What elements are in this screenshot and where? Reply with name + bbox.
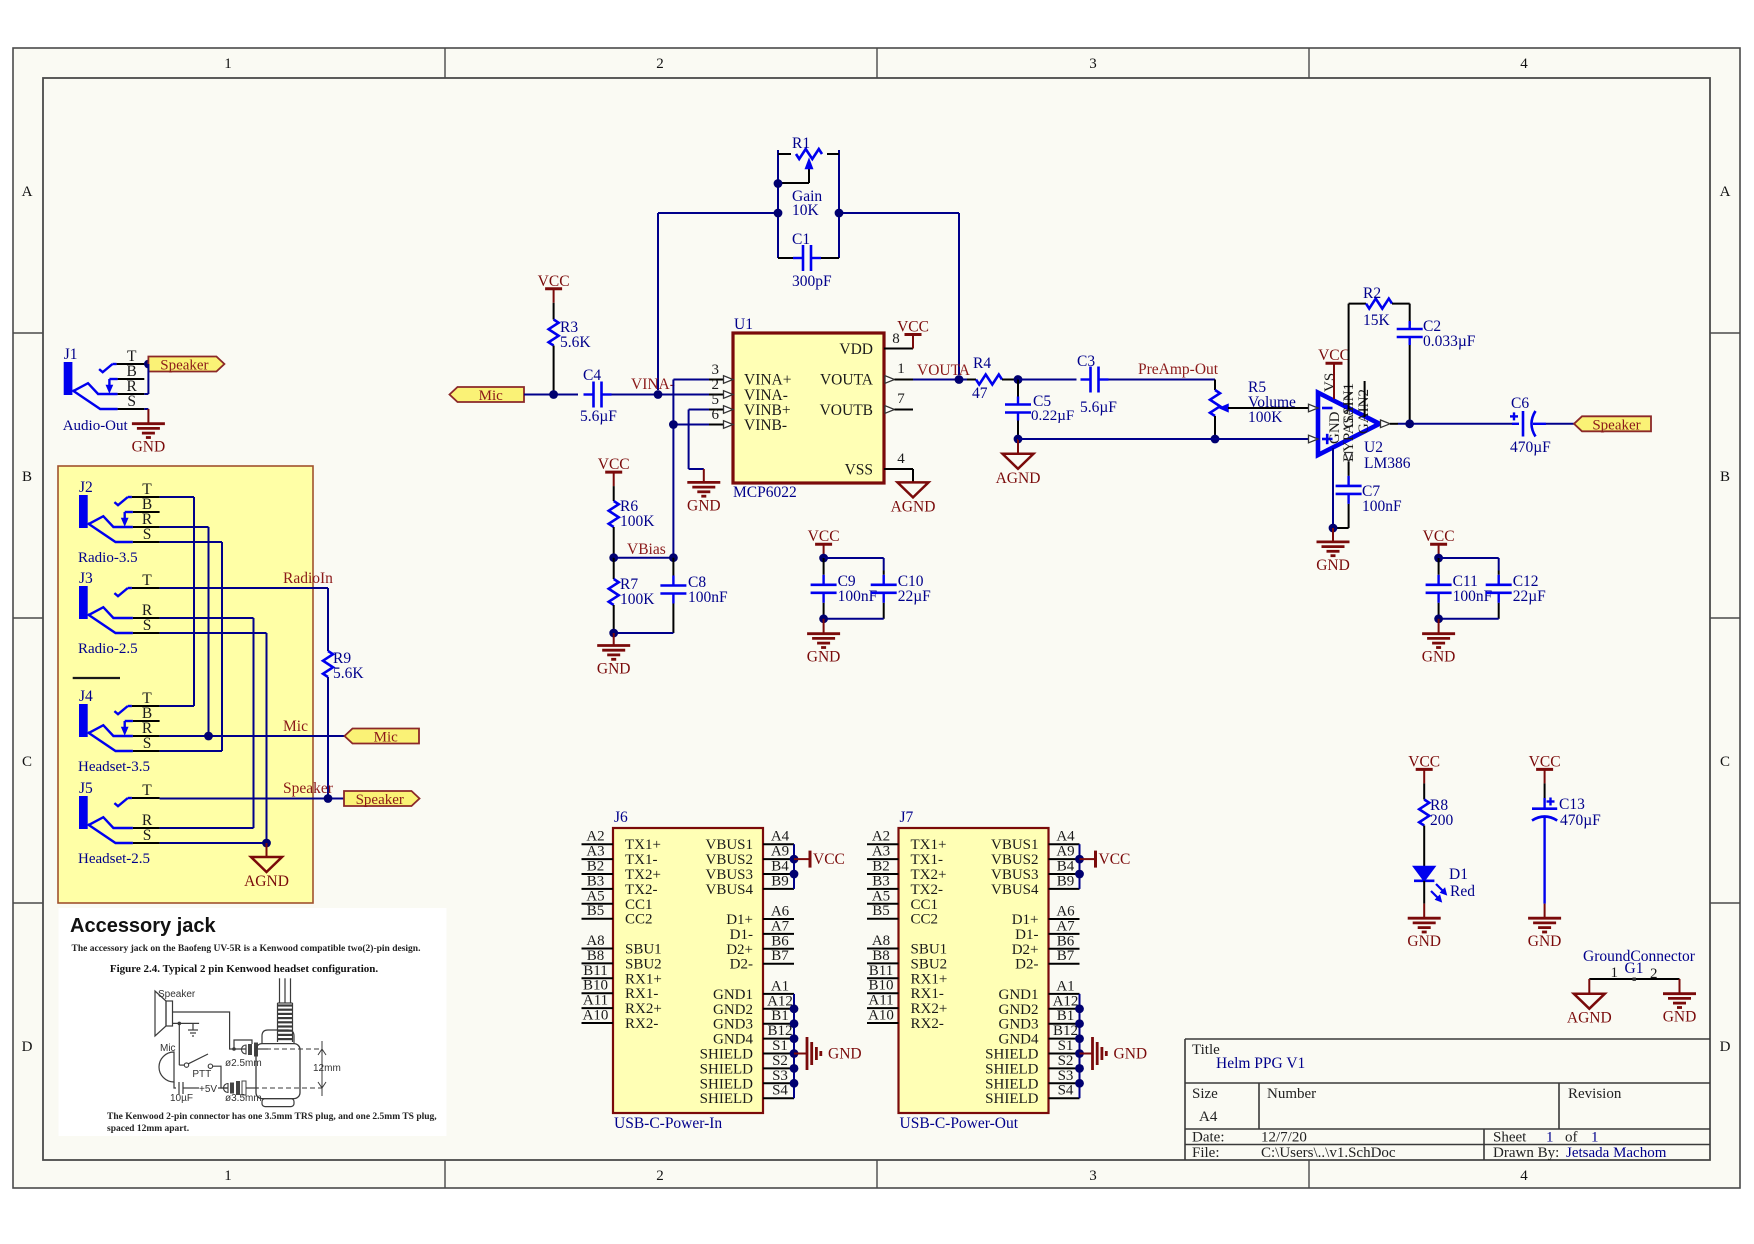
junction VCC/C11 xyxy=(1434,554,1443,563)
svg-text:GND1: GND1 xyxy=(713,987,753,1003)
svg-text:A3: A3 xyxy=(586,844,604,860)
svg-text:Number: Number xyxy=(1267,1086,1316,1102)
junction U2 GND/C7 xyxy=(1329,524,1338,533)
svg-text:100nF: 100nF xyxy=(1362,498,1402,515)
wire J5 S to AGND xyxy=(160,842,267,844)
svg-text:VBUS1: VBUS1 xyxy=(991,837,1039,853)
svg-text:RX1-: RX1- xyxy=(625,986,658,1002)
svg-text:Audio-Out: Audio-Out xyxy=(63,418,129,434)
wire J7 GND rail xyxy=(1079,994,1081,1098)
capacitor C3 5.6uF xyxy=(1077,353,1117,416)
svg-text:Sheet: Sheet xyxy=(1493,1130,1527,1146)
svg-text:GND: GND xyxy=(1422,649,1456,666)
svg-text:TX1+: TX1+ xyxy=(625,837,661,853)
connector J3 Radio-2.5 jack xyxy=(78,570,160,657)
pin J6.B1 GND3 xyxy=(713,1008,794,1032)
svg-text:GND3: GND3 xyxy=(713,1017,753,1033)
pin J6.B12 GND4 xyxy=(713,1023,794,1048)
wire U2 output xyxy=(1398,423,1512,425)
svg-text:A: A xyxy=(22,184,33,200)
svg-text:A4: A4 xyxy=(1056,829,1075,845)
pin J6.A2 TX1+ xyxy=(582,829,661,854)
svg-text:12mm: 12mm xyxy=(313,1063,341,1074)
svg-text:VINA-: VINA- xyxy=(631,376,675,393)
svg-text:2: 2 xyxy=(712,377,720,393)
wire J1 T to Speaker port xyxy=(144,363,148,365)
svg-text:VBUS3: VBUS3 xyxy=(991,867,1039,883)
connector J1 Audio-Out jack xyxy=(63,346,145,434)
pin J7.B10 RX1- xyxy=(867,978,944,1003)
pin J6.A8 SBU1 xyxy=(582,933,662,958)
pin J7.B5 CC2 xyxy=(867,903,938,928)
power VCC above C11 xyxy=(1423,528,1455,558)
svg-text:SHIELD: SHIELD xyxy=(985,1076,1038,1092)
pin J7.A1 GND1 xyxy=(999,978,1080,1003)
svg-text:A10: A10 xyxy=(868,1008,894,1024)
pin J6.A10 RX2- xyxy=(582,1008,659,1033)
svg-text:B7: B7 xyxy=(771,948,789,964)
svg-text:100nF: 100nF xyxy=(838,588,878,605)
pin J7.B8 SBU2 xyxy=(867,948,947,973)
svg-text:D: D xyxy=(22,1039,33,1055)
svg-text:B10: B10 xyxy=(868,978,893,994)
svg-text:Headset-3.5: Headset-3.5 xyxy=(78,759,150,775)
wire U2 GND pin xyxy=(1332,448,1334,528)
svg-text:7: 7 xyxy=(897,391,905,407)
svg-text:B3: B3 xyxy=(587,873,605,889)
svg-text:Radio-2.5: Radio-2.5 xyxy=(78,641,138,657)
capacitor C4 5.6uF xyxy=(580,367,617,425)
svg-text:1: 1 xyxy=(224,56,232,72)
svg-text:Mic: Mic xyxy=(479,388,504,404)
svg-text:Speaker: Speaker xyxy=(283,780,334,797)
svg-text:S2: S2 xyxy=(772,1053,788,1069)
svg-text:B8: B8 xyxy=(587,948,605,964)
svg-text:200: 200 xyxy=(1430,812,1454,829)
svg-text:D2+: D2+ xyxy=(1012,942,1039,958)
svg-text:VCC: VCC xyxy=(1099,851,1131,868)
svg-text:S2: S2 xyxy=(1058,1053,1074,1069)
svg-text:Speaker: Speaker xyxy=(160,358,208,374)
svg-text:300pF: 300pF xyxy=(792,273,832,290)
pin J7.A5 CC1 xyxy=(867,888,938,913)
svg-text:1: 1 xyxy=(1591,1130,1599,1146)
resistor R4 47 xyxy=(967,355,1018,402)
svg-text:J4: J4 xyxy=(79,688,93,705)
svg-text:4: 4 xyxy=(1520,56,1528,72)
junction R5 bottom xyxy=(1211,435,1220,444)
capacitor C12 22µF xyxy=(1486,571,1546,619)
pin J7.A2 TX1+ xyxy=(867,829,946,854)
pin U2 GAIN2 stub xyxy=(1364,381,1366,417)
svg-text:A6: A6 xyxy=(1056,904,1075,920)
svg-text:15K: 15K xyxy=(1363,312,1391,329)
ground AGND at G1 pin 1 xyxy=(1567,979,1612,1027)
op-amp U2 LM386 triangle xyxy=(1318,373,1411,472)
svg-text:VCC: VCC xyxy=(1408,753,1440,770)
junction J6 GND rail xyxy=(790,1034,799,1043)
capacitor C9 100nF xyxy=(811,558,878,619)
svg-text:VCC: VCC xyxy=(1423,528,1455,545)
svg-text:Mic: Mic xyxy=(160,1043,176,1054)
svg-text:A9: A9 xyxy=(1056,844,1074,860)
svg-text:B12: B12 xyxy=(1053,1023,1078,1039)
svg-text:B11: B11 xyxy=(869,963,893,979)
svg-text:GND: GND xyxy=(1114,1046,1148,1063)
pin J7.A11 RX2+ xyxy=(867,993,947,1018)
svg-text:D1+: D1+ xyxy=(1012,912,1039,928)
svg-text:R4: R4 xyxy=(973,355,991,372)
ground AGND in jack box xyxy=(244,843,289,890)
svg-text:A11: A11 xyxy=(868,993,893,1009)
svg-text:TX1-: TX1- xyxy=(625,852,658,868)
svg-text:TX1+: TX1+ xyxy=(911,837,947,853)
svg-text:A2: A2 xyxy=(872,829,890,845)
wire J6 GND rail xyxy=(793,994,795,1098)
svg-text:B12: B12 xyxy=(767,1023,792,1039)
capacitor C8 100nF xyxy=(660,558,728,633)
junction J7 GND rail xyxy=(1075,1049,1084,1058)
svg-text:A7: A7 xyxy=(1056,918,1075,934)
svg-text:D1+: D1+ xyxy=(726,912,753,928)
ground AGND at U1 VSS xyxy=(891,482,936,515)
power VCC above C13 xyxy=(1529,753,1561,783)
svg-text:SHIELD: SHIELD xyxy=(700,1047,753,1063)
pin J6.B11 RX1+ xyxy=(582,963,662,988)
ground GND below R7 xyxy=(597,633,631,678)
pin U2 output arrow xyxy=(1381,420,1399,428)
svg-text:VINB-: VINB- xyxy=(744,417,787,434)
svg-text:GND: GND xyxy=(1528,933,1562,950)
pin J7.S4 SHIELD xyxy=(985,1083,1079,1108)
resistor R1 (potentiometer Gain) xyxy=(778,135,839,258)
svg-text:Size: Size xyxy=(1192,1086,1218,1102)
svg-text:RX1+: RX1+ xyxy=(625,971,662,987)
svg-text:A2: A2 xyxy=(586,829,604,845)
svg-text:B9: B9 xyxy=(771,873,789,889)
svg-text:RX1-: RX1- xyxy=(911,986,944,1002)
svg-text:Headset-2.5: Headset-2.5 xyxy=(78,851,150,867)
svg-text:VBUS2: VBUS2 xyxy=(705,852,753,868)
svg-text:3: 3 xyxy=(1089,1168,1097,1184)
svg-text:A10: A10 xyxy=(583,1008,609,1024)
svg-text:CC1: CC1 xyxy=(625,897,653,913)
pin J7.B6 D2+ xyxy=(1012,933,1080,958)
wire J7 VBUS rail xyxy=(1079,844,1081,889)
port Speaker at J1 xyxy=(148,357,224,372)
wire R5 wiper to U2 -IN xyxy=(1236,407,1309,409)
svg-text:B2: B2 xyxy=(587,859,605,875)
svg-text:10K: 10K xyxy=(792,202,820,219)
connector J6 USB-C body xyxy=(613,809,763,1132)
wire C3 to R5 xyxy=(1109,380,1216,391)
ground GND below U2 xyxy=(1316,528,1350,574)
junction C9/GND xyxy=(819,614,828,623)
svg-text:GND: GND xyxy=(597,661,631,678)
svg-text:G1: G1 xyxy=(1625,960,1644,977)
pin U2 +IN arrow xyxy=(1309,435,1319,443)
capacitor C5 0.22uF xyxy=(1005,380,1074,440)
pin J7.B2 TX2+ xyxy=(867,859,946,884)
svg-text:RX2+: RX2+ xyxy=(911,1001,948,1017)
wire J3 R to J5 R xyxy=(160,618,254,828)
svg-text:2: 2 xyxy=(656,1168,664,1184)
wire J2 T to J4 T xyxy=(160,497,194,706)
svg-text:+5V: +5V xyxy=(199,1084,217,1095)
wire J1 T to R xyxy=(144,364,148,394)
svg-text:3: 3 xyxy=(1089,56,1097,72)
group box radio/headset jacks xyxy=(58,466,313,903)
svg-text:VCC: VCC xyxy=(813,851,845,868)
svg-text:SHIELD: SHIELD xyxy=(985,1091,1038,1107)
svg-text:SHIELD: SHIELD xyxy=(700,1076,753,1092)
power VCC above R6 xyxy=(598,456,630,486)
junction C2/output xyxy=(1405,419,1414,428)
svg-text:A7: A7 xyxy=(771,918,790,934)
pin U2 GAIN1 wire xyxy=(1348,304,1350,409)
pin 3 VINA+ xyxy=(709,362,733,383)
svg-text:6: 6 xyxy=(712,407,720,423)
svg-text:Accessory jack: Accessory jack xyxy=(70,915,217,937)
svg-text:RadioIn: RadioIn xyxy=(283,570,333,587)
svg-text:GND: GND xyxy=(828,1046,862,1063)
pin J6.B5 CC2 xyxy=(582,903,653,928)
resistor R7 100K xyxy=(609,558,656,633)
wire C9 top rail xyxy=(824,558,884,571)
svg-text:SHIELD: SHIELD xyxy=(985,1047,1038,1063)
pin J7.A12 GND2 xyxy=(999,993,1080,1018)
svg-text:A6: A6 xyxy=(771,904,790,920)
svg-text:A8: A8 xyxy=(586,933,604,949)
svg-text:The Kenwood 2-pin connector ha: The Kenwood 2-pin connector has one 3.5m… xyxy=(107,1112,437,1122)
svg-text:S1: S1 xyxy=(772,1038,788,1054)
svg-text:D1: D1 xyxy=(1449,866,1468,883)
svg-text:S4: S4 xyxy=(1058,1083,1074,1099)
pin J6.B8 SBU2 xyxy=(582,948,662,973)
svg-text:GND: GND xyxy=(807,649,841,666)
pin J7.A8 SBU1 xyxy=(867,933,947,958)
svg-text:PTT: PTT xyxy=(192,1069,211,1080)
svg-text:spaced 12mm apart.: spaced 12mm apart. xyxy=(107,1124,189,1134)
svg-text:GND4: GND4 xyxy=(713,1032,753,1048)
svg-text:J7: J7 xyxy=(900,809,914,826)
svg-text:Mic: Mic xyxy=(283,718,308,735)
capacitor C2 0.033uF xyxy=(1397,304,1476,424)
svg-text:U2: U2 xyxy=(1364,439,1383,456)
svg-text:VBias: VBias xyxy=(627,541,666,558)
svg-text:A9: A9 xyxy=(771,844,789,860)
junction VBias/C8 xyxy=(669,553,678,562)
capacitor C10 22µF xyxy=(871,571,931,619)
junction J7 GND rail xyxy=(1075,1019,1084,1028)
pin J6.A4 VBUS1 xyxy=(705,829,794,854)
power VCC above R8 xyxy=(1408,753,1440,783)
svg-text:The accessory jack on the Baof: The accessory jack on the Baofeng UV-5R … xyxy=(72,943,421,954)
pin J7.S3 SHIELD xyxy=(985,1068,1079,1093)
title block xyxy=(1185,1039,1710,1161)
svg-text:RX2+: RX2+ xyxy=(625,1001,662,1017)
junction J5 S AGND xyxy=(262,839,271,848)
svg-text:D1-: D1- xyxy=(730,927,753,943)
capacitor C7 100nF xyxy=(1333,476,1402,528)
connector J5 Headset-2.5 jack xyxy=(78,780,160,867)
svg-text:B5: B5 xyxy=(587,903,605,919)
svg-text:C13: C13 xyxy=(1559,796,1585,813)
svg-text:C: C xyxy=(1720,754,1730,770)
svg-text:Date:: Date: xyxy=(1192,1130,1224,1146)
junction Mic xyxy=(204,732,213,741)
svg-text:22µF: 22µF xyxy=(1513,588,1546,605)
svg-text:5.6µF: 5.6µF xyxy=(1080,399,1117,416)
svg-text:B10: B10 xyxy=(583,978,608,994)
svg-text:S4: S4 xyxy=(772,1083,788,1099)
svg-text:A1: A1 xyxy=(771,978,789,994)
wire C8 bottom to GND xyxy=(614,632,674,634)
svg-text:GND1: GND1 xyxy=(999,987,1039,1003)
svg-text:S3: S3 xyxy=(1058,1068,1074,1084)
svg-text:AGND: AGND xyxy=(891,498,936,515)
svg-text:Speaker: Speaker xyxy=(158,989,196,1000)
junction feedback right xyxy=(835,209,844,218)
svg-text:SHIELD: SHIELD xyxy=(700,1061,753,1077)
svg-text:Speaker: Speaker xyxy=(356,792,404,808)
pin J7.B1 GND3 xyxy=(999,1008,1080,1032)
resistor R8 200 xyxy=(1419,783,1453,866)
svg-text:T: T xyxy=(142,572,152,589)
port Mic at headset jacks xyxy=(345,729,420,744)
svg-text:B7: B7 xyxy=(1057,948,1075,964)
svg-text:22µF: 22µF xyxy=(898,588,931,605)
op-amp U1 MCP6022 body xyxy=(733,316,884,501)
junction VCC/C9 xyxy=(819,554,828,563)
ground GND at G1 pin 2 xyxy=(1663,979,1697,1026)
wire R4 to C3 xyxy=(1018,379,1077,381)
connector J4 Headset-3.5 jack xyxy=(78,688,160,775)
svg-text:RX1+: RX1+ xyxy=(911,971,948,987)
junction J6 GND rail xyxy=(790,1049,799,1058)
wire J2 R to Mic junction xyxy=(160,527,209,736)
svg-text:C4: C4 xyxy=(583,367,601,384)
wire J3 S to J5 S xyxy=(160,633,267,843)
pin J7.B9 VBUS4 xyxy=(991,873,1080,898)
svg-text:C1: C1 xyxy=(792,231,810,248)
pin 5 VINB+ xyxy=(709,392,733,413)
svg-text:RX2-: RX2- xyxy=(911,1016,944,1032)
svg-text:A11: A11 xyxy=(583,993,608,1009)
svg-text:J6: J6 xyxy=(614,809,628,826)
svg-text:B1: B1 xyxy=(771,1008,789,1024)
pin 1 VOUTA xyxy=(885,361,913,383)
pin J6.B9 VBUS4 xyxy=(705,873,794,898)
svg-text:VBUS4: VBUS4 xyxy=(991,882,1039,898)
svg-text:100nF: 100nF xyxy=(1453,588,1493,605)
svg-text:VCC: VCC xyxy=(1318,347,1350,364)
svg-text:S: S xyxy=(143,526,152,543)
svg-text:VBUS1: VBUS1 xyxy=(705,837,753,853)
svg-text:S: S xyxy=(143,617,152,634)
ground GND below D1 xyxy=(1407,904,1441,951)
capacitor C1 300pF xyxy=(778,231,839,290)
wire C11 top rail xyxy=(1439,558,1499,571)
svg-text:5.6K: 5.6K xyxy=(560,334,591,351)
svg-text:PreAmp-Out: PreAmp-Out xyxy=(1138,361,1219,378)
wire J2 S to J4 S xyxy=(160,542,222,751)
junction J7 GND rail xyxy=(1075,1004,1084,1013)
pin J6.B4 VBUS3 xyxy=(705,859,794,884)
svg-text:VOUTA: VOUTA xyxy=(820,372,874,389)
svg-text:C: C xyxy=(22,754,32,770)
svg-text:1: 1 xyxy=(897,361,905,377)
wire J1 S to GND xyxy=(144,409,148,424)
svg-text:VCC: VCC xyxy=(897,319,929,336)
wire C11 bottom rail xyxy=(1439,618,1499,620)
ground GND below C11 xyxy=(1422,619,1456,666)
svg-text:CC2: CC2 xyxy=(911,912,939,928)
svg-text:10µF: 10µF xyxy=(170,1093,193,1104)
power VCC above C9 xyxy=(808,528,840,558)
svg-text:VBUS4: VBUS4 xyxy=(705,882,753,898)
svg-text:Revision: Revision xyxy=(1568,1086,1622,1102)
pin 4 VSS xyxy=(884,451,913,482)
pin J6.S2 SHIELD xyxy=(700,1053,794,1078)
junction C5/AGND rail xyxy=(1014,435,1023,444)
capacitor C13 470uF polarized xyxy=(1532,783,1601,903)
junction J6 GND rail xyxy=(790,1079,799,1088)
svg-text:VSS: VSS xyxy=(845,462,873,479)
junction J7 GND rail xyxy=(1075,1034,1084,1043)
pin J6.B7 D2- xyxy=(730,948,794,973)
wire pin3 branch xyxy=(673,380,709,558)
svg-text:VCC: VCC xyxy=(598,456,630,473)
svg-text:B6: B6 xyxy=(771,933,789,949)
svg-text:USB-C-Power-Out: USB-C-Power-Out xyxy=(900,1115,1019,1132)
power VCC above R3 xyxy=(538,273,570,303)
junction J6 GND rail xyxy=(790,1019,799,1028)
svg-text:TX2+: TX2+ xyxy=(911,867,947,883)
svg-text:GND4: GND4 xyxy=(999,1032,1039,1048)
svg-text:USB-C-Power-In: USB-C-Power-In xyxy=(614,1115,722,1132)
svg-text:Figure 2.4. Typical 2 pin Kenw: Figure 2.4. Typical 2 pin Kenwood headse… xyxy=(110,963,379,975)
wire VOUTA xyxy=(913,379,967,381)
svg-text:A12: A12 xyxy=(1053,993,1079,1009)
svg-text:B1: B1 xyxy=(1057,1008,1075,1024)
pin 8 VDD xyxy=(884,331,913,349)
svg-text:SBU2: SBU2 xyxy=(911,956,948,972)
pin J6.A5 CC1 xyxy=(582,888,653,913)
connector G1 GroundConnector xyxy=(1583,948,1696,982)
pin J7.B7 D2- xyxy=(1015,948,1079,973)
svg-text:CC1: CC1 xyxy=(911,897,939,913)
svg-text:GND: GND xyxy=(1407,933,1441,950)
pin J7.A10 RX2- xyxy=(867,1008,944,1033)
svg-text:47: 47 xyxy=(972,385,988,402)
ground GND at J7 shield xyxy=(1080,1037,1148,1070)
junction J6 GND rail xyxy=(790,1064,799,1073)
svg-text:B11: B11 xyxy=(583,963,607,979)
svg-text:File:: File: xyxy=(1192,1145,1220,1161)
junction J7 GND rail xyxy=(1075,1064,1084,1073)
svg-text:12/7/20: 12/7/20 xyxy=(1261,1130,1307,1146)
svg-text:D2+: D2+ xyxy=(726,942,753,958)
junction J7 VBUS A9 xyxy=(1075,855,1084,864)
svg-text:4: 4 xyxy=(897,451,905,467)
pin J6.A9 VBUS2 xyxy=(705,844,794,869)
port Speaker (output) xyxy=(1574,416,1651,431)
pin J6.S3 SHIELD xyxy=(700,1068,794,1093)
pin J6.B3 TX2- xyxy=(582,873,658,898)
junction J7 GND rail xyxy=(1075,1079,1084,1088)
svg-text:1: 1 xyxy=(224,1168,232,1184)
